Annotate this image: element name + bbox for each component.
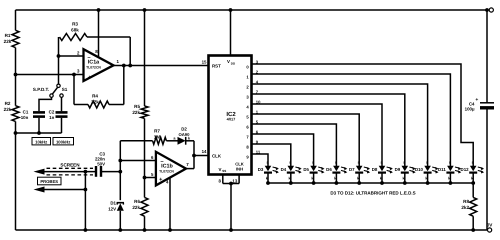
wire IC1a pin3 input (16, 74, 84, 76)
label S1 (62, 87, 68, 92)
label IC2 output 3 (246, 95, 249, 100)
junction D1 at rail (118, 228, 122, 232)
svg-text:22k: 22k (132, 205, 140, 210)
wire divider mid node (144, 118, 146, 177)
wire probe screen dashes lower (47, 174, 94, 176)
svg-text:S1: S1 (62, 87, 68, 92)
junction D5 cathode at rail (312, 181, 316, 185)
label IC2 pin 13 (232, 178, 237, 183)
junction probe / screen ground (84, 170, 88, 174)
wire IC1a output to IC2 RST (114, 65, 209, 67)
wire C3 to node B (101, 171, 120, 173)
svg-text:CLK: CLK (212, 153, 222, 158)
label IC2 pin 15 (202, 60, 207, 65)
label R6 value (132, 199, 140, 210)
wire IC1a pin2 input (59, 55, 84, 57)
junction D8 cathode at rail (380, 181, 384, 185)
svg-text:D12: D12 (461, 167, 470, 172)
label IC2 output 5 (246, 115, 249, 120)
junction R2 bottom / capacitor return (14, 131, 18, 135)
label LED note (330, 191, 415, 196)
svg-text:R2: R2 (5, 101, 11, 106)
junction R8 at rail (471, 228, 475, 232)
label R3 value (71, 22, 79, 33)
wire C4 to 0V rail (486, 110, 488, 231)
junction D12 cathode at rail (471, 181, 475, 185)
resistor R7 (153, 137, 167, 144)
svg-text:D3 TO D12: ULTRABRIGHT RED L.E: D3 TO D12: ULTRABRIGHT RED L.E.D.S (330, 191, 415, 196)
LED D5 (303, 161, 324, 183)
wire IC1a pin8 supply stub (98, 10, 100, 57)
label IC2 output 0 (246, 65, 249, 70)
label IC2 output 7 (246, 135, 249, 140)
junction D3 cathode at rail (266, 181, 270, 185)
junction node B / C3 (118, 170, 122, 174)
svg-text:C1: C1 (23, 110, 29, 115)
svg-text:100µ: 100µ (465, 107, 475, 112)
wire IC2 CLK input (194, 155, 209, 157)
switch S1 throw contact left (50, 94, 53, 97)
svg-text:68k: 68k (71, 28, 79, 33)
svg-text:10kHz: 10kHz (35, 139, 47, 144)
junction pin3 / R4 (72, 73, 76, 77)
wire 0V bottom supply rail (16, 229, 488, 231)
label R1 value (4, 33, 12, 44)
op-amp IC1b (156, 152, 186, 186)
junction pin2 node (57, 54, 61, 58)
svg-text:R4: R4 (92, 94, 98, 99)
junction node B / pin6 (118, 159, 122, 163)
label IC2 pin 9 (256, 139, 259, 144)
capacitor C3 (96, 166, 101, 177)
label IC2 pin 7 (256, 89, 259, 94)
junction D9 cathode at rail (403, 181, 407, 185)
junction IC1a output / R4 (122, 64, 126, 68)
svg-text:V: V (219, 167, 222, 172)
capacitor C2 (56, 112, 68, 116)
terminal 0V battery (488, 228, 492, 232)
label IC1a pin 1 (117, 59, 120, 64)
wire R2 bottom to 0V rail (15, 121, 17, 230)
wire D2 to output corner (186, 141, 194, 169)
label IC1b pin 7 (186, 162, 189, 167)
junction D11 cathode at rail (449, 181, 453, 185)
wire R4 left leg (74, 75, 88, 105)
IC IC2 4017 body (209, 56, 252, 175)
junction top rail / battery terminal (485, 8, 489, 12)
label R8 value (461, 199, 469, 210)
junction top rail / IC1a pin8 (97, 8, 101, 12)
zener diode D1 (117, 203, 124, 230)
label SCREEN (60, 163, 80, 168)
junction D7 cathode at rail (357, 181, 361, 185)
svg-text:S.P.D.T.: S.P.D.T. (33, 87, 49, 92)
svg-text:10n: 10n (21, 115, 29, 120)
svg-text:D5: D5 (303, 167, 309, 172)
LED D3 (258, 161, 279, 183)
label IC1b pin 6 (151, 155, 154, 160)
junction D6 cathode at rail (335, 181, 339, 185)
svg-text:12V: 12V (108, 207, 116, 212)
junction IC2 ground at rail (229, 228, 233, 232)
svg-text:V: V (227, 59, 230, 64)
resistor R5 (141, 106, 148, 118)
svg-text:PROBES: PROBES (40, 179, 58, 184)
label IC2 output 6 (246, 125, 249, 130)
label 10kHz range (32, 138, 51, 145)
junction top rail / R5 divider (143, 8, 147, 12)
svg-text:D6: D6 (326, 167, 332, 172)
wire +V right drop (486, 10, 488, 103)
wire IC1b pin6 input (120, 160, 156, 162)
resistor R6 (141, 197, 148, 216)
label C1 value (21, 110, 29, 120)
wire IC2 output 7 (pin 6) to LED (252, 134, 314, 166)
svg-text:13: 13 (232, 178, 237, 183)
wire IC2 output 6 (pin 5) to LED (252, 124, 337, 166)
svg-text:TL072CN: TL072CN (86, 66, 101, 70)
label C4 value (465, 102, 475, 112)
svg-text:50V: 50V (97, 161, 105, 166)
wire IC1b pin4 stub (169, 178, 171, 231)
label IC2 pin 5 (256, 119, 259, 124)
svg-text:15: 15 (202, 60, 207, 65)
label IC1b pin 5 (151, 172, 154, 177)
label IC2 pin 3 (256, 59, 259, 64)
junction IC1a output / R3 / RST wire (128, 64, 132, 68)
label C3 value (95, 151, 106, 166)
LED D12 (461, 161, 485, 183)
svg-text:D7: D7 (349, 167, 355, 172)
wire IC2 Vdd supply (230, 10, 232, 56)
resistor R3 (60, 34, 88, 41)
svg-text:0V: 0V (487, 222, 494, 227)
svg-text:R7: R7 (154, 128, 160, 133)
svg-text:SCREEN: SCREEN (60, 163, 80, 168)
wire IC1b output (186, 168, 194, 170)
label PROBES (38, 177, 62, 185)
svg-text:22k: 22k (4, 39, 12, 44)
LED D11 (438, 161, 461, 183)
wire R5 top lead (144, 10, 146, 106)
wire capacitor return C1 C2 (16, 132, 62, 134)
svg-text:14: 14 (202, 149, 207, 154)
svg-text:1M: 1M (154, 134, 161, 139)
wire IC2 output 1 (pin 2) to LED (252, 74, 451, 166)
switch S1 lever (52, 87, 57, 94)
label 100kHz range (53, 138, 74, 145)
label R2 value (4, 101, 12, 112)
junction probes arrow (84, 188, 88, 192)
label R4 value (91, 94, 99, 105)
junction IC1b output / CLK (192, 154, 196, 158)
wire IC2 output 0 (pin 3) to LED (252, 64, 474, 166)
label IC2 pin 10 (256, 99, 261, 104)
switch S1 pole contact (57, 84, 60, 87)
wire IC2 output 9 (pin 11) to LED (252, 154, 269, 166)
LED D4 (281, 161, 302, 183)
svg-text:22k: 22k (132, 110, 140, 115)
wire R8 top lead (472, 183, 474, 197)
label R5 value (132, 104, 140, 115)
wire C1 bottom lead (38, 118, 40, 133)
wire IC1b pin5 input (145, 177, 156, 179)
label S.P.D.T. (33, 87, 49, 92)
wire IC2 output 2 (pin 4) to LED (252, 84, 428, 166)
wire IC2 output 5 (pin 1) to LED (252, 114, 360, 166)
label IC2 pin 11 (256, 149, 261, 154)
junction pin8/13 ground (229, 182, 233, 186)
wire R6 bottom lead (144, 216, 146, 230)
label IC1a pin 8 (95, 49, 98, 54)
svg-text:R8: R8 (463, 199, 469, 204)
switch S1 throw contact right (60, 94, 63, 97)
junction R6 at rail (143, 228, 147, 232)
LED D6 (326, 161, 347, 183)
junction divider / pin5 (143, 176, 147, 180)
wire S1 right throw to C2 (61, 97, 63, 111)
svg-text:D4: D4 (281, 167, 287, 172)
label 0V (487, 222, 494, 227)
label IC1a pin 3 (77, 69, 80, 74)
wire S1 left throw to C1 (39, 97, 52, 111)
label D2 cathode k (188, 136, 191, 140)
wire IC2 clk-inh pin13 stub (238, 175, 240, 184)
label IC2 output 1 (246, 75, 249, 80)
label IC2 pin 1 (256, 109, 259, 114)
wire R8 bottom lead (472, 216, 474, 230)
label IC2 output 8 (246, 145, 249, 150)
junction D4 cathode at rail (289, 181, 293, 185)
label IC2 pin 14 (202, 149, 207, 154)
svg-text:4017: 4017 (227, 116, 236, 121)
svg-text:1n: 1n (49, 115, 54, 120)
wire node B vertical (119, 141, 121, 200)
label D2 value (179, 127, 191, 137)
wire R7 left lead (120, 140, 152, 142)
junction probe ground at rail (84, 228, 88, 232)
resistor R2 (12, 106, 19, 122)
svg-text:INH: INH (236, 166, 243, 171)
LED D8 (372, 161, 393, 183)
svg-text:SS: SS (222, 169, 226, 173)
svg-text:100kHz: 100kHz (56, 139, 70, 144)
wire IC1a pin2 node vertical (58, 37, 60, 84)
wire R7 to D2 (166, 140, 177, 142)
svg-text:D11: D11 (438, 167, 446, 172)
label R7 value (154, 128, 161, 139)
wire pin8-pin13 tie (223, 183, 239, 185)
svg-text:TL072CN: TL072CN (159, 169, 174, 173)
label IC2 output 2 (246, 85, 249, 90)
wire R3 right lead to output (87, 37, 130, 66)
wire probe ground drop (84, 172, 86, 230)
svg-text:R3: R3 (72, 22, 78, 27)
label IC2 pin 4 (256, 79, 259, 84)
label IC2 output 4 (246, 105, 249, 110)
wire R4 right leg to IC1a output (109, 66, 124, 105)
svg-text:D3: D3 (258, 167, 264, 172)
svg-text:D10: D10 (415, 167, 424, 172)
wire IC2 output 8 (pin 9) to LED (252, 144, 291, 166)
wire IC2 output 3 (pin 7) to LED (252, 94, 405, 166)
svg-text:2k2: 2k2 (461, 205, 469, 210)
svg-text:R6: R6 (134, 199, 140, 204)
wire R1-R2 node (15, 48, 17, 106)
capacitor C1 (33, 112, 45, 116)
svg-text:D8: D8 (372, 167, 378, 172)
wire probes arrow (34, 187, 86, 193)
resistor R4 (88, 101, 109, 108)
label IC2 pin 2 (256, 69, 259, 74)
capacitor C4 electrolytic (475, 97, 494, 108)
svg-text:22k: 22k (91, 100, 99, 105)
svg-text:10: 10 (256, 99, 261, 104)
wire LED cathode rail (268, 182, 473, 184)
wire C2 bottom lead (61, 118, 63, 133)
svg-text:11: 11 (256, 149, 261, 154)
LED D9 (395, 161, 416, 183)
junction IC1b pin4 at rail (168, 228, 172, 232)
svg-text:22k: 22k (4, 107, 12, 112)
label C2 value (49, 110, 55, 120)
svg-text:C2: C2 (49, 110, 55, 115)
diode D2 (178, 137, 186, 145)
svg-text:R1: R1 (5, 33, 11, 38)
junction node R1/R2 (pin3 tap) (14, 73, 18, 77)
label D1 value (108, 201, 116, 212)
wire R1 top lead (15, 10, 17, 30)
junction C1 return (37, 131, 41, 135)
resistor R8 (470, 197, 477, 216)
svg-text:R5: R5 (134, 104, 140, 109)
label IC2 pin 8 (219, 178, 222, 183)
wire +V top supply rail (16, 9, 488, 11)
label IC2 output 9 (246, 155, 249, 160)
junction top rail / IC2 Vdd (229, 8, 233, 12)
wire IC2 Vss pin8 stub (222, 175, 224, 184)
svg-text:RST: RST (212, 63, 221, 68)
label IC1b pin 4 (166, 179, 169, 184)
label D2 anode a (173, 136, 176, 140)
label IC1a pin 2 (77, 51, 80, 56)
svg-text:D1: D1 (110, 201, 116, 206)
terminal +V battery (489, 8, 493, 12)
label IC2 pin 6 (256, 129, 259, 134)
wire probe screen dashes upper (47, 167, 94, 169)
wire IC2 ground drop (230, 184, 232, 231)
wire IC2 output 4 (pin 10) to LED (252, 104, 383, 166)
op-amp IC1a (84, 49, 114, 81)
wire R6 top lead (144, 178, 146, 198)
wire probe tip with arrow (34, 169, 96, 175)
LED D10 (415, 161, 439, 183)
svg-text:+: + (475, 97, 478, 103)
svg-text:D9: D9 (395, 167, 401, 172)
resistor R1 (12, 30, 19, 47)
junction D10 cathode at rail (426, 181, 430, 185)
LED D7 (349, 161, 370, 183)
